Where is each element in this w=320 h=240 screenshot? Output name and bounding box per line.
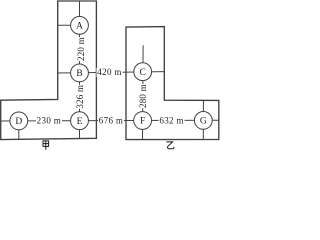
- node E: [71, 112, 89, 130]
- svg-text:220 m: 220 m: [76, 37, 86, 61]
- svg-text:676 m: 676 m: [99, 116, 124, 126]
- svg-text:632 m: 632 m: [159, 115, 184, 125]
- label 632 m (F-G distance): [159, 115, 185, 125]
- wire: vertical line through G (x=203.3): [202, 100, 204, 139]
- wire: horizontal line B-C row: [58, 72, 165, 73]
- label 676 m (E-F distance): [98, 116, 124, 126]
- node F: [134, 112, 152, 130]
- svg-text:D: D: [15, 117, 22, 127]
- node G: [194, 112, 212, 130]
- wire: stub from left border to A: [58, 24, 80, 26]
- svg-text:E: E: [77, 117, 83, 127]
- label 220 m (A-B distance, rotated): [76, 37, 86, 61]
- label 230 m (D-E distance): [36, 116, 62, 126]
- svg-text:326 m: 326 m: [75, 85, 85, 109]
- svg-text:230 m: 230 m: [37, 116, 62, 126]
- svg-text:A: A: [76, 22, 83, 32]
- wire: stub from D down to bottom border: [18, 121, 20, 140]
- region outline: plot 乙 (right L-shape): [126, 27, 219, 140]
- wire: horizontal line D-E-F-G row: [1, 119, 219, 122]
- region outline: plot 甲 (left L-shape): [1, 1, 97, 140]
- node A: [71, 16, 89, 34]
- label 甲 (drawn glyph, left plot name): [43, 141, 49, 150]
- svg-text:G: G: [200, 117, 207, 127]
- wire: vertical line A-B-E (x=79.5): [79, 1, 81, 139]
- svg-text:420 m: 420 m: [97, 67, 122, 77]
- svg-text:280 m: 280 m: [138, 84, 148, 108]
- label 乙 (drawn glyph, right plot name): [166, 142, 174, 149]
- label 280 m (C-F distance, rotated): [138, 84, 148, 108]
- wire: vertical line C-F (hanging stub above C): [142, 45, 145, 139]
- label 326 m (B-E distance, rotated): [75, 85, 85, 109]
- svg-text:C: C: [140, 68, 146, 78]
- node C: [134, 63, 152, 81]
- svg-text:B: B: [76, 69, 82, 79]
- label 420 m (B-C distance): [97, 67, 123, 77]
- node D: [10, 112, 28, 130]
- svg-text:F: F: [140, 117, 145, 127]
- node B: [71, 64, 89, 82]
